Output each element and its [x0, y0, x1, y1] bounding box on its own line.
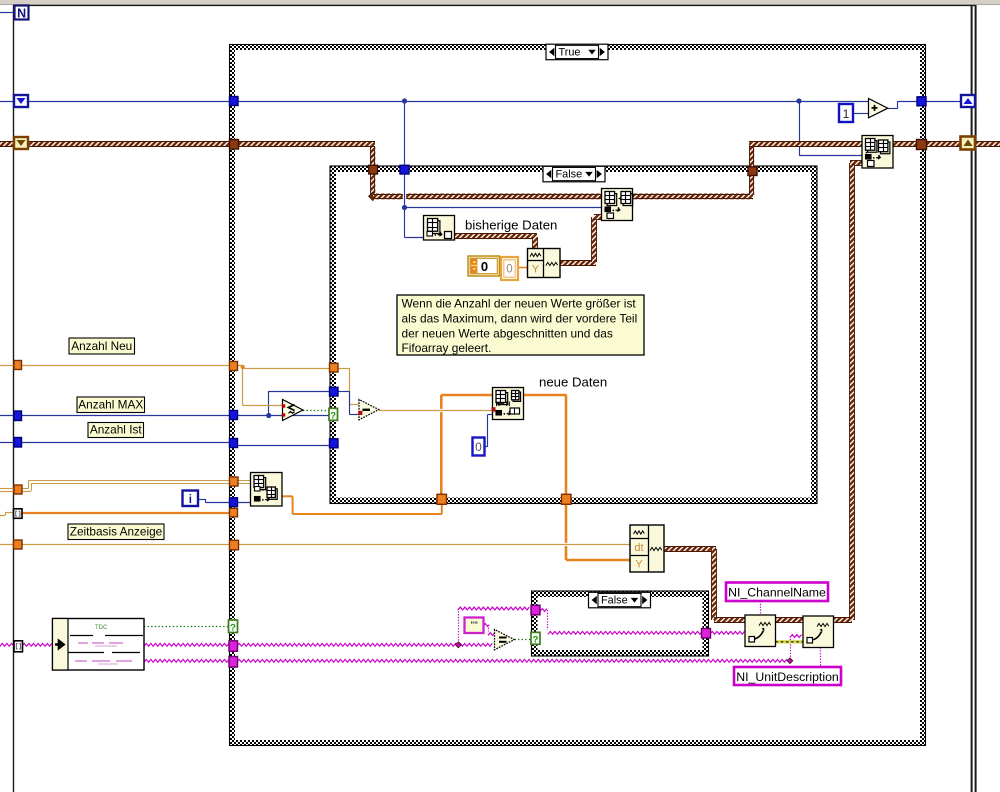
svg-text:False: False: [556, 168, 583, 180]
svg-text:bisherige Daten: bisherige Daten: [465, 218, 557, 233]
svg-text:0: 0: [506, 264, 512, 276]
svg-text:als das Maximum, dann wird der: als das Maximum, dann wird der vordere T…: [402, 311, 638, 325]
svg-text:i: i: [189, 494, 192, 506]
svg-text:?: ?: [533, 634, 539, 645]
svg-text:"": "": [470, 621, 478, 630]
svg-text:N: N: [17, 6, 26, 20]
svg-text:der neuen Werte abgeschnitten: der neuen Werte abgeschnitten und das: [402, 326, 613, 340]
svg-text:Anzahl Ist: Anzahl Ist: [90, 423, 143, 437]
svg-text:Y: Y: [532, 264, 540, 276]
svg-text:?: ?: [230, 622, 236, 633]
svg-text:True: True: [559, 46, 581, 58]
svg-text:Zeitbasis Anzeige: Zeitbasis Anzeige: [70, 525, 163, 539]
svg-text:0: 0: [475, 440, 482, 454]
svg-text:TDC: TDC: [95, 625, 108, 631]
svg-text:dt: dt: [634, 542, 643, 554]
svg-text:Anzahl MAX: Anzahl MAX: [78, 398, 143, 412]
svg-text:1: 1: [843, 107, 850, 121]
svg-text:NI_ChannelName: NI_ChannelName: [728, 586, 826, 600]
svg-text:Wenn die Anzahl der neuen Wert: Wenn die Anzahl der neuen Werte größer i…: [402, 297, 637, 311]
svg-text:neue Daten: neue Daten: [539, 375, 607, 390]
svg-text:Anzahl Neu: Anzahl Neu: [71, 339, 132, 353]
svg-text:Fifoarray geleert.: Fifoarray geleert.: [402, 341, 492, 355]
svg-text:NI_UnitDescription: NI_UnitDescription: [736, 670, 839, 684]
svg-text:?: ?: [330, 410, 336, 421]
svg-text:Y: Y: [635, 559, 643, 571]
svg-text:False: False: [601, 594, 628, 606]
svg-text:0: 0: [481, 259, 488, 274]
